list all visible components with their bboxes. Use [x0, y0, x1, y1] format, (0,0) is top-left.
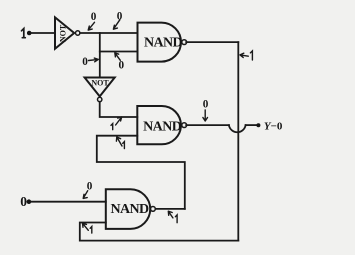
svg-text:0: 0: [82, 56, 88, 68]
svg-text:NAND: NAND: [143, 119, 182, 134]
svg-text:NOT: NOT: [91, 78, 109, 87]
svg-text:0: 0: [119, 60, 125, 72]
svg-text:0: 0: [87, 181, 93, 193]
svg-text:NOT: NOT: [58, 24, 67, 42]
svg-text:Y−0: Y−0: [264, 120, 283, 132]
svg-text:0: 0: [20, 194, 27, 209]
svg-text:0: 0: [117, 11, 123, 23]
svg-text:NAND: NAND: [110, 202, 149, 217]
svg-text:0: 0: [203, 98, 209, 110]
svg-text:NAND: NAND: [144, 36, 183, 51]
svg-text:0: 0: [91, 11, 97, 23]
